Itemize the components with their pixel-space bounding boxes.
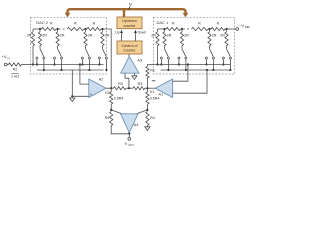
DAC1 node junction (cell 3) — [208, 28, 210, 30]
Down signal arrow — [134, 30, 137, 41]
DAC2 SPDT switch blade (cell 4) — [103, 49, 107, 57]
DAC2 series resistor R (cell 3) — [67, 27, 85, 30]
Up signal arrow — [120, 30, 123, 41]
DAC1 series resistor R label (cell 1) — [172, 21, 175, 25]
DAC2 switch right contact stub to lower rail (cell 3) — [88, 59, 90, 71]
DAC2 switch right contact stub to lower rail (cell 2) — [60, 59, 62, 71]
resistor R1 — [146, 66, 149, 78]
right divider junction — [146, 109, 148, 111]
ground symbol under right R4 — [145, 126, 150, 131]
DAC2 SPDT switch blade (cell 3) — [86, 49, 90, 57]
DAC1 upper rail (signal rail) — [147, 64, 230, 66]
DAC2 name label — [36, 20, 49, 25]
DAC1 series resistor R label (cell 3) — [198, 21, 201, 25]
DAC2 series resistor R label (cell 3) — [74, 21, 77, 25]
svg-text:2R: 2R — [184, 33, 189, 37]
DAC1 SPDT switch blade (cell 2) — [182, 49, 186, 57]
svg-text:2R: 2R — [27, 33, 32, 37]
svg-text:Down: Down — [138, 31, 147, 35]
node V2 label — [105, 91, 110, 95]
DAC2 switch left contact stub to upper rail (cell 4) — [98, 59, 100, 66]
DAC2 node junction (cell 2) — [57, 28, 59, 30]
output terminal Vout — [128, 137, 131, 140]
DAC2 node junction (cell 1) — [39, 28, 41, 30]
svg-text:A3: A3 — [137, 57, 143, 62]
resistor R2 — [9, 63, 22, 66]
resistor R4 (left) — [110, 112, 113, 126]
wire R2 to DAC2 input rail — [22, 64, 31, 66]
DAC1 SPDT switch blade (cell 3) — [210, 49, 214, 57]
DAC2 switch left contact stub to upper rail (cell 1) — [36, 59, 38, 66]
wire left divider junction to A4 input — [111, 110, 121, 114]
A4 output node junction — [128, 132, 130, 134]
resistor 0.5R4 (left) — [110, 92, 113, 104]
DAC2 dashed enclosure box — [31, 17, 107, 74]
svg-text:2R: 2R — [212, 33, 217, 37]
DAC1 switch contact circles (cell 1) — [160, 57, 169, 59]
DAC1 switch contact circles (cell 4) — [222, 57, 231, 59]
wire to left divider junction — [110, 104, 112, 110]
wire R1 to node V1 — [146, 78, 148, 88]
wire V2 down to 0.5R4 — [110, 88, 112, 92]
wire DAC1 ground rail to A1 non-inverting input — [173, 69, 208, 93]
svg-text:R: R — [74, 21, 77, 25]
DAC2 switch contact circles (cell 2) — [54, 57, 63, 59]
svg-text:N: N — [129, 2, 132, 7]
resistor R3 (right) — [133, 87, 145, 90]
DAC1 switch left contact stub to upper rail (cell 1) — [160, 59, 162, 66]
DAC1 node junction (cell 1) — [163, 28, 165, 30]
bus label N — [129, 2, 132, 7]
Up label — [115, 31, 119, 35]
resistor R3 (left) — [114, 87, 126, 90]
DAC1 dashed enclosure box — [154, 17, 235, 74]
svg-text:2R: 2R — [88, 33, 93, 37]
reference terminal -Vref — [236, 28, 239, 31]
DAC1 switch right contact stub to lower rail (cell 1) — [167, 59, 169, 71]
DAC2 terminating resistor 2R — [31, 29, 34, 65]
DAC2 shunt resistor 2R (cell 1) — [38, 29, 41, 49]
center junction of R3 divider — [128, 87, 130, 89]
wire Vref terminal to DAC1 ladder — [227, 28, 236, 30]
DAC2 shunt 2R label (cell 3) — [88, 33, 93, 37]
resistor 0.5R4 right label — [150, 96, 160, 100]
svg-text:R2: R2 — [13, 68, 18, 72]
node V1 label — [150, 90, 155, 94]
svg-text:V: V — [125, 141, 128, 146]
resistor R4 right label — [150, 116, 155, 120]
DAC2 node junction (cell 3) — [84, 28, 86, 30]
wire V1 down to 0.5R4 — [146, 88, 148, 92]
wire A1 output to node V1 — [147, 87, 155, 89]
wire R3 to center junction — [126, 87, 133, 89]
DAC1 switch left contact stub to upper rail (cell 2) — [178, 59, 180, 66]
control of counter box — [117, 41, 142, 54]
DAC1 switch contact circles (cell 3) — [205, 57, 214, 59]
svg-text:OUT: OUT — [128, 143, 134, 147]
svg-text:DAC 1: DAC 1 — [157, 20, 170, 25]
wire DAC2 signal rail to A2 inverting input — [79, 63, 89, 84]
DAC2 shunt 2R label (cell 2) — [60, 33, 65, 37]
DAC2 series resistor R (cell 3) — [86, 27, 103, 30]
wire A2 output to node V2 — [106, 87, 111, 89]
resistor R3 right label — [138, 82, 143, 86]
DAC2 SPDT switch blade (cell 2) — [58, 49, 62, 57]
svg-text:2R: 2R — [167, 33, 172, 37]
bus right arrow into DAC 1 — [183, 13, 189, 18]
DAC2 shunt resistor 2R (cell 2) — [56, 29, 59, 49]
wire DAC1 signal rail exit down to R1 — [146, 65, 148, 67]
DAC1 switch left contact stub to upper rail (cell 3) — [205, 59, 207, 66]
DAC1 shunt 2R label (cell 3) — [212, 33, 217, 37]
svg-text:2R: 2R — [151, 33, 156, 37]
wire left R4 bottom to A4 output node — [111, 126, 129, 134]
op-amp A2 plus sign — [90, 92, 93, 97]
DAC1 shunt resistor 2R (cell 1) — [163, 29, 166, 49]
DAC1 terminating 2R rail junction — [156, 63, 158, 65]
op-amp A1 label — [159, 92, 165, 97]
svg-text:R1: R1 — [150, 68, 155, 72]
DAC1 switch left contact stub to upper rail (cell 4) — [222, 59, 224, 66]
svg-text:Control of: Control of — [122, 44, 139, 48]
wire ground junction to A2 non-inverting input — [72, 95, 89, 97]
svg-text:counter: counter — [123, 24, 136, 28]
svg-text:R: R — [50, 21, 53, 25]
DAC2 shunt resistor 2R (cell 3) — [84, 29, 87, 49]
svg-text:−V: −V — [239, 23, 244, 28]
svg-text:DAC 2: DAC 2 — [36, 20, 49, 25]
resistor R3 left label — [118, 82, 123, 86]
svg-text:R4: R4 — [105, 116, 110, 120]
svg-text:in: in — [7, 56, 10, 60]
DAC1 terminating resistor 2R — [156, 29, 159, 65]
svg-text:0.5R4: 0.5R4 — [150, 96, 160, 100]
DAC2 switch contact circles (cell 4) — [98, 57, 107, 59]
DAC2 shunt 2R label (cell 1) — [42, 33, 47, 37]
DAC1 series resistor R label (cell 3) — [217, 21, 220, 25]
svg-text:V2: V2 — [105, 91, 110, 95]
wire to right divider junction — [146, 104, 148, 110]
svg-text:R: R — [93, 21, 96, 25]
DAC2 terminating 2R rail junction — [32, 63, 34, 65]
resistor R4 (right) — [146, 112, 149, 126]
resistor R4 left label — [105, 116, 110, 120]
svg-text:1 kΩ: 1 kΩ — [11, 75, 19, 79]
wire R3 to node V1 — [145, 87, 148, 89]
wire DAC2 ladder output to node V2 — [103, 29, 112, 88]
op-amp A4 label — [134, 122, 140, 127]
DAC2 switch left contact stub to upper rail (cell 3) — [81, 59, 83, 66]
DAC1 series resistor R (cell 1) — [165, 27, 183, 30]
resistor R2 value label — [11, 75, 19, 79]
svg-text:REF: REF — [245, 25, 250, 29]
svg-text:2R: 2R — [60, 33, 65, 37]
DAC2 ladder top rail start segment — [33, 28, 40, 30]
svg-text:R4: R4 — [150, 116, 155, 120]
svg-text:R: R — [172, 21, 175, 25]
DAC2 terminating 2R label — [27, 33, 32, 37]
DAC2 switch left contact stub to upper rail (cell 2) — [53, 59, 55, 66]
ground symbol at A3 right input — [132, 73, 137, 79]
svg-text:Up/down: Up/down — [122, 19, 137, 23]
DAC1 ladder top rail start segment — [158, 28, 165, 30]
DAC1 terminating 2R label — [151, 33, 156, 37]
DAC2 SPDT switch blade (cell 1) — [40, 49, 44, 57]
DAC1 series resistor R (cell 3) — [192, 27, 210, 30]
wire A3 left input to R3 center junction — [125, 73, 129, 88]
svg-text:0.5R4: 0.5R4 — [114, 96, 124, 100]
DAC2 shunt resistor 2R (cell 4) — [101, 29, 104, 49]
op-amp A3 triangle — [121, 56, 139, 73]
DAC1 shunt resistor 2R (cell 3) — [208, 29, 211, 49]
svg-text:+: + — [90, 92, 93, 97]
wire terminal to R2 — [7, 64, 8, 66]
DAC2 switch contact circles (cell 3) — [81, 57, 90, 59]
svg-text:Up: Up — [115, 31, 119, 35]
DAC1 switch right contact stub to lower rail (cell 3) — [212, 59, 214, 71]
DAC2 series resistor R label (cell 3) — [93, 21, 96, 25]
DAC2 shunt 2R label (cell 4) — [105, 33, 110, 37]
svg-text:R: R — [198, 21, 201, 25]
reference label -Vref — [239, 23, 250, 29]
wire right divider junction to A4 input — [137, 110, 147, 114]
svg-text:+V: +V — [2, 54, 7, 59]
wire control box to A3 output — [128, 54, 130, 57]
svg-text:2R: 2R — [105, 33, 110, 37]
node V2 junction — [110, 87, 112, 89]
resistor R2 fraction bar — [11, 72, 18, 74]
svg-text:R: R — [217, 21, 220, 25]
DAC2 series resistor R label (cell 1) — [50, 21, 53, 25]
DAC1 SPDT switch blade (cell 1) — [165, 49, 169, 57]
wire A4 output to Vout terminal — [128, 133, 130, 138]
svg-text:A2: A2 — [99, 76, 105, 81]
DAC1 series resistor R (cell 3) — [210, 27, 227, 30]
DAC1 name label — [157, 20, 170, 25]
ground symbol at A2 input — [70, 96, 75, 101]
wire DAC2 ground rail down to ground junction — [71, 70, 73, 97]
DAC1 ladder dashed continuation gap — [183, 28, 191, 30]
DAC1 lower rail (ground rail) — [161, 69, 231, 71]
svg-text:A4: A4 — [134, 122, 140, 127]
DAC1 shunt resistor 2R (cell 2) — [180, 29, 183, 49]
bus width slash marker — [129, 6, 130, 9]
resistor R1 label — [150, 68, 155, 72]
DAC1 switch contact circles (cell 2) — [178, 57, 187, 59]
control of counter text — [122, 44, 139, 53]
DAC1 shunt resistor 2R (cell 4) — [225, 29, 228, 49]
svg-text:V1: V1 — [150, 90, 155, 94]
svg-text:2R: 2R — [220, 33, 225, 37]
DAC1 switch right contact stub to lower rail (cell 2) — [185, 59, 187, 71]
DAC1 shunt 2R label (cell 2) — [184, 33, 189, 37]
DAC1 node junction (cell 4) — [225, 28, 227, 30]
wire DAC1 signal rail to A1 inverting input — [173, 63, 189, 81]
op-amp A4 triangle — [121, 114, 138, 133]
DAC1 switch right contact stub to lower rail (cell 4) — [229, 59, 231, 71]
resistor 0.5R4 left label — [114, 96, 124, 100]
DAC2 switch right contact stub to lower rail (cell 1) — [43, 59, 45, 71]
input label +Vin — [2, 54, 10, 60]
op-amp A2 label — [99, 76, 105, 81]
input terminal +Vin — [4, 63, 7, 66]
up/down counter text — [122, 19, 137, 28]
svg-text:2R: 2R — [42, 33, 47, 37]
DAC2 series resistor R (cell 1) — [40, 27, 58, 30]
svg-text:counter: counter — [123, 48, 136, 52]
digital bus N (thick horizontal line) — [68, 9, 186, 13]
op-amp A2 triangle — [89, 79, 106, 98]
output label Vout — [125, 141, 135, 147]
DAC1 SPDT switch blade (cell 4) — [227, 49, 231, 57]
wire V2 to R3 — [111, 87, 113, 89]
DAC2 lower rail (ground rail) — [37, 69, 104, 71]
svg-text:R3: R3 — [138, 82, 143, 86]
bus drop to up/down counter — [123, 9, 125, 17]
resistor R2 label — [13, 68, 18, 72]
DAC2 switch contact circles (cell 1) — [36, 57, 45, 59]
op-amp A3 label — [137, 57, 143, 62]
bus left arrow into DAC 2 — [65, 13, 71, 18]
DAC1 shunt 2R label (cell 4) — [220, 33, 225, 37]
node V1 junction — [146, 87, 148, 89]
op-amp A1 triangle — [155, 79, 172, 98]
resistor 0.5R4 (right) — [146, 92, 149, 104]
DAC2 switch right contact stub to lower rail (cell 4) — [105, 59, 107, 71]
op-amp A1 minus sign near inverting input — [152, 80, 156, 82]
Down label — [138, 31, 147, 35]
left divider junction — [110, 109, 112, 111]
up/down counter box — [117, 17, 142, 29]
DAC2 ladder dashed continuation gap — [59, 28, 67, 30]
DAC2 upper rail (signal rail) — [31, 64, 104, 66]
DAC2 node junction (cell 4) — [101, 28, 103, 30]
svg-text:R3: R3 — [118, 82, 123, 86]
DAC1 shunt 2R label (cell 1) — [167, 33, 172, 37]
DAC1 node junction (cell 2) — [181, 28, 183, 30]
